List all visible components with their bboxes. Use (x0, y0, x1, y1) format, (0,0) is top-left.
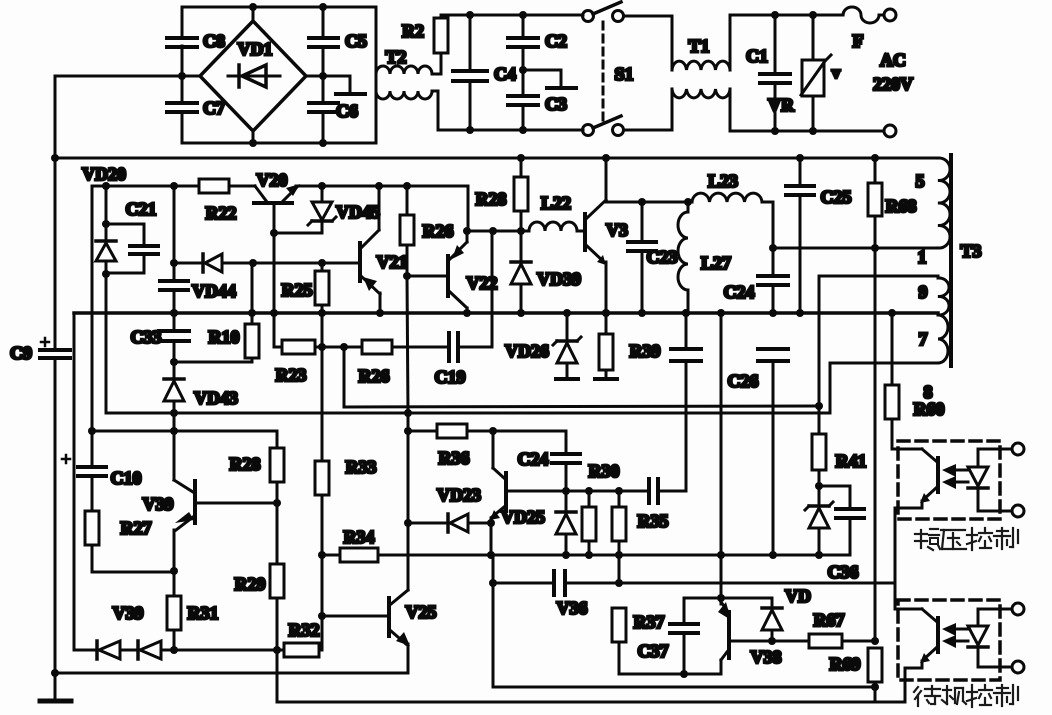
svg-text:VD45: VD45 (336, 202, 380, 222)
char ya (941, 529, 965, 531)
char zhi (997, 687, 1008, 689)
resistor R30 (582, 491, 596, 555)
zener VD26 (553, 309, 581, 379)
resistor R22 (199, 179, 229, 193)
char ji (943, 689, 951, 691)
svg-text:L23: L23 (708, 171, 738, 191)
svg-text:C6: C6 (336, 101, 358, 121)
diode VD20 (96, 186, 116, 413)
svg-text:VD44: VD44 (192, 281, 236, 301)
wire T1 to C1 top (730, 15, 843, 70)
capacitor C5 (309, 7, 338, 76)
bottom line to S1 (438, 129, 583, 132)
opto1 box (898, 441, 1000, 519)
svg-text:R2: R2 (402, 21, 424, 41)
resistor R69 (868, 648, 882, 702)
svg-text:VD20: VD20 (82, 164, 126, 184)
svg-text:V38: V38 (751, 647, 782, 667)
ground (40, 699, 71, 704)
transformer T3 winding 5-1 (938, 158, 950, 248)
svg-text:V25: V25 (406, 602, 437, 622)
opto1 terminals (978, 443, 1024, 517)
capacitor C26 right (758, 349, 788, 555)
wire V20 row to V22 (296, 182, 468, 231)
svg-text:R28: R28 (230, 454, 261, 474)
svg-text:C21: C21 (126, 199, 157, 219)
svg-text:C10: C10 (111, 468, 142, 488)
svg-text:R39: R39 (630, 341, 661, 361)
capacitor above C33 (160, 186, 188, 331)
resistor R27 (85, 511, 174, 572)
opto2 box (898, 600, 1000, 680)
wire S1 to T1 top (624, 15, 672, 18)
svg-text:C24: C24 (724, 282, 755, 302)
ground stub near C6 (306, 76, 365, 94)
pin 9 wire (819, 276, 938, 406)
bridge box frame (182, 7, 376, 143)
svg-text:VD39: VD39 (537, 269, 581, 289)
wire V22 collector row (463, 227, 529, 235)
svg-text:R28: R28 (476, 189, 507, 209)
capacitor C7 (167, 103, 197, 112)
char kong (971, 528, 973, 550)
transformer T1 (672, 61, 730, 98)
wire y431 left (88, 427, 277, 435)
opto2 light arrows (942, 623, 968, 648)
svg-text:R33: R33 (346, 457, 377, 477)
y687 line (493, 686, 875, 689)
svg-text:R29: R29 (235, 574, 266, 594)
wire V39 base to R28/R29 (197, 499, 281, 507)
wire bridge left vertex to left rail (55, 75, 200, 78)
zener VD43 (164, 379, 184, 431)
opto2 emitter wire (905, 668, 922, 702)
diodes V39 pair (74, 641, 284, 659)
svg-text:R30: R30 (589, 461, 620, 481)
resistor R29 (270, 564, 284, 702)
svg-text:V21: V21 (377, 252, 408, 272)
svg-text:C4: C4 (494, 64, 516, 84)
mid bus dots (170, 309, 725, 317)
svg-text:R41: R41 (836, 451, 867, 471)
svg-text:1: 1 (918, 247, 927, 267)
svg-text:R67: R67 (814, 610, 845, 630)
svg-text:S1: S1 (614, 64, 633, 84)
capacitor C6 (309, 76, 338, 143)
svg-text:V39: V39 (113, 603, 144, 623)
opto1 collector wire (892, 448, 922, 451)
opto2 terminals (978, 603, 1024, 673)
transformer T3 winding 9-7 (938, 276, 949, 363)
opto2 collector wire (895, 608, 922, 611)
diode VD (721, 598, 782, 645)
svg-text:C23: C23 (647, 247, 678, 267)
resistor R37 (612, 608, 721, 674)
opto1 phototransistor (920, 449, 938, 508)
wire R22 to V20 (229, 185, 255, 188)
svg-text:V36: V36 (557, 598, 588, 618)
resistor R36 row (404, 413, 566, 523)
svg-text:R27: R27 (121, 518, 152, 538)
inductor L23 (692, 193, 773, 202)
svg-text:7: 7 (919, 329, 928, 349)
capacitor C3 (508, 66, 538, 134)
svg-text:R34: R34 (344, 527, 375, 547)
resistor R35 (612, 491, 626, 583)
resistor R41 (812, 406, 826, 506)
svg-text:R32: R32 (289, 620, 320, 640)
capacitor C21 (106, 224, 158, 273)
opto1 LED (968, 449, 988, 511)
wire V3 collector riser (602, 154, 610, 202)
diode VD23 (404, 514, 495, 532)
svg-text:220V: 220V (873, 74, 913, 94)
resistor R26 vertical (400, 186, 414, 413)
resistor R28 mid (514, 154, 528, 231)
top line to S1 (441, 14, 583, 17)
svg-text:L22: L22 (541, 193, 571, 213)
zener VD25b (556, 491, 576, 555)
main bus y555 with R34 (322, 548, 850, 562)
svg-text:C24: C24 (518, 449, 549, 469)
wire collector row to L23 (606, 198, 692, 206)
resistor R28 lower (270, 431, 284, 564)
svg-text:v: v (832, 63, 841, 82)
second rail corner (73, 313, 76, 650)
svg-text:L27: L27 (701, 253, 731, 273)
svg-text:R26: R26 (359, 366, 390, 386)
AC terminal bottom (884, 125, 896, 137)
svg-text:V3: V3 (606, 220, 628, 240)
capacitor C26 left (671, 309, 701, 491)
svg-text:VD25: VD25 (501, 507, 545, 527)
char zhi (997, 530, 1008, 532)
svg-text:VD43: VD43 (194, 388, 238, 408)
svg-text:C8: C8 (203, 31, 225, 51)
char dai (914, 687, 918, 692)
label regulation control (915, 528, 1018, 550)
svg-text:V39: V39 (143, 494, 174, 514)
pin 1 line (773, 247, 938, 250)
svg-text:C36: C36 (828, 562, 859, 582)
transistor V25 (322, 523, 410, 673)
transistor V22 (448, 231, 467, 313)
wire V20 collector to VD45 (270, 229, 322, 237)
double line lower y413 (106, 409, 830, 417)
VD25 base line (508, 487, 649, 495)
V38 base wire / R67 (731, 634, 879, 648)
resistor R2 (432, 15, 448, 74)
capacitor C1 (760, 11, 790, 135)
transistor V39 (170, 431, 195, 596)
wire VD20 row (92, 182, 199, 431)
capacitor C33 (159, 309, 189, 379)
wire V22 base (403, 272, 448, 280)
capacitor C8 (167, 38, 197, 47)
svg-text:C25: C25 (821, 187, 852, 207)
svg-text:R37: R37 (634, 612, 665, 632)
svg-text:C7: C7 (203, 98, 225, 118)
svg-text:R10: R10 (209, 327, 240, 347)
svg-text:R23: R23 (276, 365, 307, 385)
svg-text:C3: C3 (545, 94, 567, 114)
svg-text:VD: VD (785, 586, 811, 606)
inductor L22 (529, 222, 577, 231)
svg-text:AC: AC (880, 50, 906, 70)
pin 7 wire (830, 363, 938, 413)
left rail with C9 (51, 76, 59, 700)
resistor R26 horizontal (362, 340, 392, 354)
transistor V38 (684, 313, 731, 674)
svg-text:R25: R25 (282, 280, 313, 300)
resistor R33 column (315, 313, 329, 620)
svg-text:C26: C26 (728, 371, 759, 391)
svg-text:R60: R60 (914, 399, 945, 419)
resistor R68 (868, 154, 882, 641)
double line upper y407 (344, 347, 823, 410)
svg-text:V20: V20 (257, 170, 288, 190)
capacitor C37 (670, 598, 698, 678)
svg-text:9: 9 (919, 282, 928, 302)
svg-text:T3: T3 (960, 241, 981, 261)
capacitor C23 (628, 202, 656, 313)
svg-text:VR: VR (768, 95, 795, 115)
transistor V20 (254, 184, 300, 347)
capacitor C9 (40, 338, 70, 358)
V25 emitter line (55, 672, 408, 675)
varistor VR (801, 11, 831, 135)
resistor R31 (167, 596, 181, 654)
svg-text:C37: C37 (638, 641, 669, 661)
capacitor C10 (62, 431, 106, 511)
T3 core (949, 155, 953, 366)
svg-text:T1: T1 (688, 36, 709, 56)
svg-text:VD23: VD23 (437, 485, 481, 505)
svg-text:VD1: VD1 (238, 39, 273, 59)
capacitor C25 (786, 154, 814, 317)
wire L22 to V3 base (577, 230, 585, 233)
resistor R25 (315, 263, 329, 313)
svg-text:C9: C9 (10, 343, 32, 363)
transistor V21 (360, 186, 380, 313)
opto1 emitter wire (895, 508, 922, 609)
zener beside C36 (805, 502, 833, 555)
capacitor C2 (508, 11, 538, 70)
transistor V3 (585, 200, 606, 313)
resistor R39 (595, 309, 617, 379)
svg-text:F: F (853, 31, 864, 51)
char wen (920, 530, 922, 548)
fuse F (843, 7, 884, 23)
opto2 phototransistor (920, 609, 938, 668)
svg-text:R36: R36 (439, 448, 470, 468)
R23 row (274, 340, 362, 354)
capacitor C24 lower (552, 431, 580, 491)
V36 line y583 (489, 555, 895, 687)
AC terminal top (884, 9, 896, 21)
zener VD39 (511, 231, 531, 313)
bridge rectifier VD1 (178, 3, 327, 147)
svg-text:C33: C33 (131, 327, 162, 347)
label standby control (914, 685, 1018, 707)
opto2 LED (968, 609, 988, 667)
inductor L27 (678, 202, 688, 313)
zener VD45 (308, 186, 336, 233)
series capacitor on base line (649, 361, 686, 503)
resistor R32 (284, 616, 322, 657)
svg-text:R22: R22 (206, 203, 237, 223)
diode VD44 (170, 254, 360, 272)
transformer T2 (376, 66, 432, 99)
svg-text:C5: C5 (345, 31, 367, 51)
svg-text:C1: C1 (746, 46, 768, 66)
resistor R60 (885, 309, 902, 449)
top bus (55, 157, 938, 160)
svg-text:R26: R26 (423, 221, 454, 241)
opto1 light arrows (942, 464, 968, 489)
wire T1 to C1 bottom (730, 89, 884, 131)
svg-text:VD26: VD26 (505, 341, 549, 361)
svg-text:R31: R31 (188, 603, 219, 623)
svg-text:R35: R35 (638, 511, 669, 531)
main mid bus (74, 311, 938, 315)
transistor VD25 (490, 431, 506, 555)
svg-text:R68: R68 (886, 196, 917, 216)
ground stub between C2 C3 (523, 70, 576, 88)
switch S1 (583, 2, 624, 136)
wire T2 bottom to bottom line (432, 91, 438, 130)
capacitor C24 upper (758, 202, 788, 317)
resistor R10 (174, 263, 259, 362)
capacitor C36 (819, 486, 864, 555)
svg-text:C19: C19 (435, 367, 466, 387)
capacitor C19 (392, 231, 492, 361)
char kong (971, 685, 973, 707)
svg-text:R69: R69 (830, 654, 861, 674)
svg-text:T2: T2 (385, 47, 406, 67)
wire S1 to T1 bottom (624, 129, 672, 132)
svg-text:C2: C2 (545, 31, 567, 51)
bottom bus (277, 701, 905, 704)
capacitor C4 (453, 11, 487, 134)
svg-text:5: 5 (916, 171, 925, 191)
